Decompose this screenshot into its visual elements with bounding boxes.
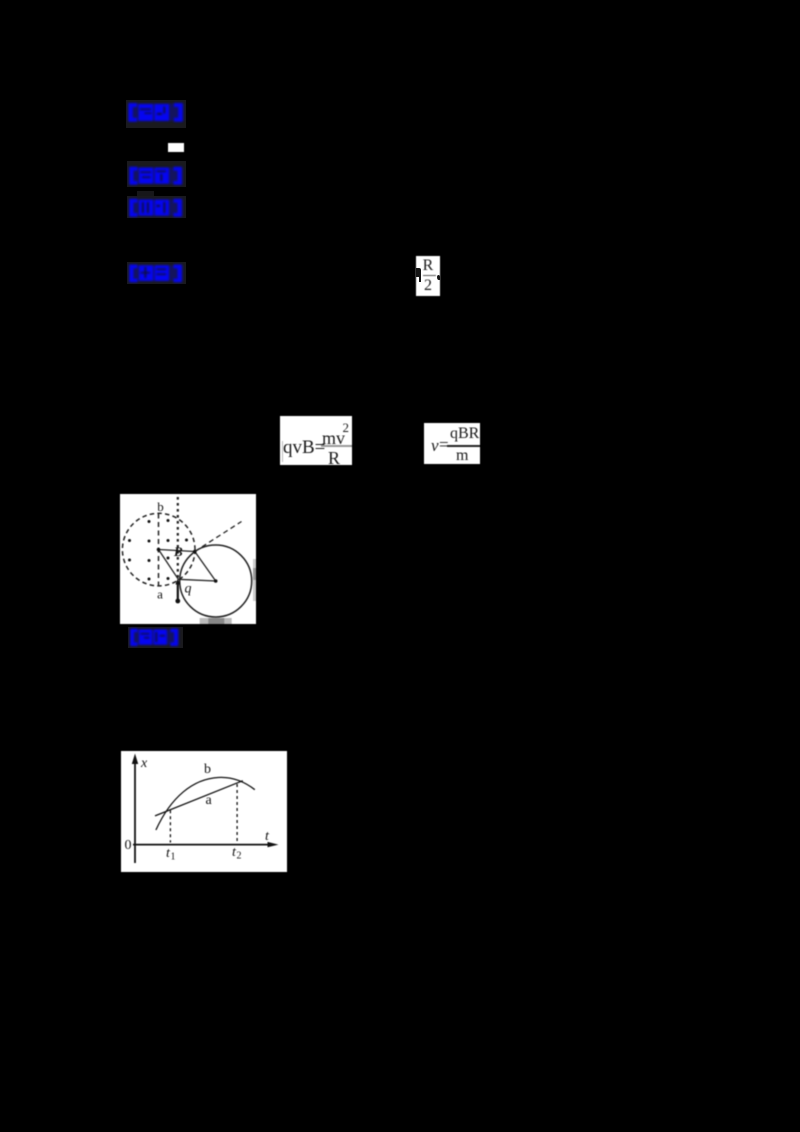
figure background [120, 494, 256, 624]
heading 【解答】 [128, 264, 184, 283]
dark underlay heading 2 [127, 161, 186, 187]
dark underlay heading 1 [126, 100, 186, 128]
dashed line t1 [169, 810, 171, 842]
figure background [121, 751, 287, 872]
svg-text:b: b [204, 762, 211, 777]
figure 1: magnetic field diagram [120, 494, 256, 624]
parallelogram lines [159, 550, 195, 552]
dashed field circle [122, 513, 195, 586]
curve b [156, 777, 255, 830]
svg-text:b: b [157, 499, 164, 514]
dark underlay heading 4 [127, 262, 186, 284]
line a [155, 781, 243, 816]
heavy dotted entry line [177, 497, 179, 578]
gray artifact bottom [200, 618, 232, 624]
formula image v = qBR/m [424, 423, 480, 464]
gray scrollbar artifact right [253, 559, 256, 601]
inline formula image qR/2 [416, 256, 440, 296]
solid trajectory circle [180, 545, 252, 617]
svg-text:2: 2 [237, 851, 242, 862]
partial q glyph left of R/2 [416, 268, 421, 277]
svg-text:0: 0 [125, 838, 132, 853]
dark underlay heading 5 [128, 627, 183, 648]
faint artifact strip [137, 191, 154, 197]
center dots [157, 548, 161, 552]
dashed tangent line [195, 522, 242, 552]
svg-text:B: B [173, 544, 183, 559]
svg-text:a: a [157, 587, 163, 602]
t axis (horizontal) [133, 844, 271, 846]
svg-text:x: x [140, 756, 148, 771]
comma after R/2 [437, 275, 440, 280]
heading 【分析】 [128, 198, 184, 218]
fraction R over 2 [416, 256, 440, 296]
heading 【考点】 [127, 102, 185, 123]
dashed line t2 [236, 784, 238, 843]
field dots [128, 519, 188, 581]
figure 2: x-t graph [121, 751, 287, 872]
svg-text:a: a [206, 793, 213, 808]
white inline formula dash [168, 143, 184, 152]
heading 【专题】 [128, 166, 184, 186]
svg-text:1: 1 [171, 852, 176, 863]
heading 【点评】 [129, 628, 180, 647]
svg-text:q: q [185, 582, 192, 597]
dark underlay heading 3 [127, 196, 186, 218]
velocity arrow [177, 583, 179, 602]
x axis (vertical) [134, 759, 136, 863]
formula image qvB = mv^2/R [280, 416, 352, 465]
dashed diameter line ab [158, 514, 160, 587]
